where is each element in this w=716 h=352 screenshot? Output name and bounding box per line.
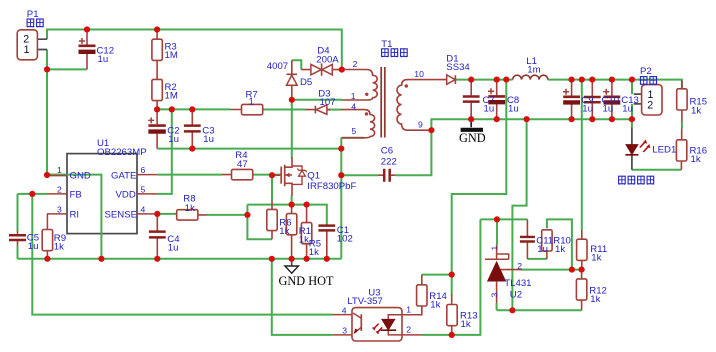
label R2 [165,82,178,101]
node U1 GND pin [44,172,50,178]
node source R5 [304,202,310,208]
wire LED riser top [631,119,633,127]
svg-text:TL431: TL431 [504,278,531,289]
wire R7 right to D3 [262,109,306,111]
wire VDD riser [157,109,172,193]
wire opto pin3 riser [272,259,333,335]
node rail R1 [289,256,295,262]
svg-text:1u: 1u [28,241,39,252]
svg-text:4: 4 [351,101,356,111]
svg-text:222: 222 [381,156,397,167]
node gnd TL431 riser [524,116,530,122]
node R13 bottom [449,332,455,338]
label R1 [299,226,311,245]
wire pin9 riser and output gnd rail [431,119,632,130]
svg-text:5: 5 [352,126,357,136]
label U3 LTV-357 [342,288,412,336]
wire source node down to R6 bottom [247,205,272,240]
resistor R8 [177,210,207,220]
node gnd C8 [494,116,500,122]
label C8 [507,95,519,115]
svg-text:1k: 1k [430,299,440,310]
label C12 [97,46,115,65]
svg-text:102: 102 [337,233,353,244]
svg-text:2: 2 [517,261,522,271]
wire R11 riser [581,80,583,230]
label T1 [381,39,407,57]
wire VDD row C2 C3 to R7 [157,108,231,110]
svg-text:1k: 1k [279,226,289,237]
label R8 [183,194,195,214]
wire FB row [18,193,48,195]
transistor Q1 [272,158,307,197]
wire opto pin2 to TL431 riser [422,219,481,335]
label R6 [279,218,291,238]
svg-text:C6: C6 [381,146,393,157]
node C6 tap [338,172,344,178]
LED LED1 [625,128,650,170]
resistor R15 [677,81,687,122]
label P1 [27,9,43,27]
wire P2 pin2 riser [631,104,633,119]
svg-text:Q1: Q1 [307,171,320,182]
svg-text:D5: D5 [300,77,312,88]
svg-text:2: 2 [57,184,62,194]
svg-text:6: 6 [141,165,146,175]
label R4 [235,150,248,170]
svg-text:1: 1 [406,305,411,315]
label R5 [309,239,321,258]
svg-text:1k: 1k [185,203,195,214]
capacitor C4 [149,214,166,259]
svg-text:200A: 200A [316,55,339,66]
wire R10 top segment [547,219,572,269]
node out+ R11 riser [579,77,585,83]
wire ground hot rail [18,258,342,260]
IC U1 box [47,154,157,259]
svg-text:GND: GND [70,170,91,181]
wire LED bottom to R16 [632,169,682,171]
svg-text:10: 10 [414,69,424,79]
label D5 [300,77,312,88]
svg-text:1k: 1k [591,253,601,264]
node gnd C7 [468,116,474,122]
svg-text:1u: 1u [203,134,214,145]
node out+ C7 [468,77,474,83]
svg-text:GND: GND [459,131,486,145]
node out+ C10 [589,77,595,83]
label R9 [54,233,66,253]
label R3 [165,42,178,61]
label R14 [429,291,447,310]
svg-text:1: 1 [249,97,254,108]
svg-text:1: 1 [24,44,30,56]
wire R14 top link [422,274,452,276]
capacitor C3 [184,109,201,148]
node out+ P2 [629,77,635,83]
diode D5 [287,60,298,100]
wire drain vertical [291,100,293,159]
svg-text:SENSE: SENSE [105,210,138,221]
wire TL431 ref row [521,269,582,271]
wire transformer pin5 lead [341,137,364,139]
node rail opto riser [269,256,275,262]
svg-text:2: 2 [647,99,653,111]
capacitor C9 [563,80,580,120]
svg-text:1k: 1k [309,247,319,258]
label C1 [337,225,353,244]
label R12 [589,286,607,306]
capacitor C11 [520,219,535,259]
node TL431 cathode [494,216,500,222]
resistor R2 [152,79,162,109]
node rail C4 [154,256,160,262]
node xfmr pin9 [428,127,434,133]
node gnd C13 [609,116,615,122]
label C11 [536,236,553,256]
node VDD R2 [154,106,160,112]
opto U3 [333,305,422,341]
wire TL431 pin1 lead top [496,219,498,245]
svg-text:2: 2 [353,59,358,69]
svg-text:P1: P1 [27,9,39,20]
wire Q1 source lower [291,196,293,205]
resistor R7 [231,104,263,114]
node SENSE C4 [154,211,160,217]
svg-text:1u: 1u [582,104,593,115]
node rail C1 [324,256,330,262]
svg-text:1u: 1u [622,104,633,115]
wire D5 jog to D4 [292,60,302,69]
svg-text:LTV-357: LTV-357 [347,296,383,307]
svg-text:1: 1 [351,91,356,101]
wire FB corner to C5 [17,194,19,231]
diode D1 [442,75,456,84]
label TL431 U2 [490,246,532,301]
wire P1 pin1 to C12 bottom [47,50,87,70]
label U1 [97,138,147,158]
node sense R8 [244,212,250,218]
connector P1 [17,30,47,60]
capacitor C6 [379,169,396,182]
label C6 [381,146,397,168]
wire left vertical P1 to U1 GND pin [46,69,48,175]
svg-text:1u: 1u [168,134,179,145]
svg-text:1u: 1u [98,54,109,65]
capacitor C10 [584,80,601,120]
wire gate row from U1 [157,174,222,176]
node rail R9 [44,256,50,262]
resistor R14 [417,275,427,315]
wire gate dot to R6 top [271,175,273,201]
wire FB riser to opto pin4 [32,194,333,315]
svg-text:9: 9 [418,120,423,130]
node xfmr pin2 [339,67,345,73]
label D4 [316,46,339,66]
node gnd P2 LED [629,116,635,122]
label C10 [602,95,620,115]
node out+ C8 [494,77,500,83]
wire output top rail after D1 [455,79,513,81]
shunt reference U2 TL431 [485,245,522,303]
wire TL431 cathode row [480,218,527,220]
wire R8 right lead [207,214,248,216]
svg-text:1u: 1u [168,243,179,254]
svg-text:U2: U2 [510,290,522,301]
label C13 [621,95,639,115]
wire pin1 row from D5 node [292,99,343,101]
label R13 [460,311,478,331]
label xfmr pin numbers [351,59,424,136]
node source Q1 [289,202,295,208]
svg-text:1k: 1k [555,244,565,255]
resistor R1 [286,205,296,259]
svg-text:1k: 1k [299,234,309,245]
node VDD C3 [189,106,195,112]
svg-text:4007: 4007 [267,61,288,72]
node anode riser [509,307,515,313]
capacitor C12 [79,30,96,70]
wire U1 GND stub [47,174,66,176]
resistor R4 [222,169,254,179]
label C7 [483,95,495,115]
node FB [29,191,35,197]
svg-text:1M: 1M [165,90,178,101]
svg-text:1: 1 [490,246,500,251]
svg-text:1k: 1k [461,319,471,330]
svg-text:LED1: LED1 [652,145,676,156]
node VDD riser [169,106,175,112]
svg-text:GND HOT: GND HOT [279,274,334,288]
wire input top rail [47,30,342,70]
label C4 [167,234,180,254]
svg-text:4: 4 [141,204,146,214]
svg-text:107: 107 [320,97,336,108]
svg-text:1k: 1k [54,242,64,253]
node out+ R14 riser [503,77,509,83]
svg-text:1m: 1m [527,64,540,75]
label L1 [526,56,540,75]
label D1 [446,54,470,74]
svg-text:OB2263MP: OB2263MP [97,147,147,158]
node rail R5 [304,256,310,262]
node input+ R3 [154,26,160,32]
svg-text:GATE: GATE [111,170,136,181]
svg-text:SS34: SS34 [446,62,470,73]
svg-text:5: 5 [141,184,146,194]
node P1 return [44,66,50,72]
label R11 [590,244,607,264]
svg-text:FB: FB [70,190,82,201]
svg-text:P2: P2 [640,66,652,77]
label P2 [640,66,656,85]
node rail U1 gnd [98,256,104,262]
svg-text:3: 3 [490,293,500,298]
ground hot symbol [279,259,334,288]
label C2 [167,126,179,145]
wire R4 to gate [253,174,281,176]
label power indicator [619,176,654,184]
node drain D5 [289,97,295,103]
resistor R13 [447,295,457,335]
svg-text:3: 3 [57,204,62,214]
svg-text:1u: 1u [508,104,519,115]
resistor R10 [542,230,552,259]
svg-text:IRF830PbF: IRF830PbF [307,181,356,192]
svg-text:4: 4 [342,306,347,316]
svg-text:1k: 1k [691,154,701,165]
connector P2 [634,85,662,115]
capacitor C2 [148,109,166,148]
wire pin5 riser down to ground rail [340,138,342,259]
svg-text:1k: 1k [590,294,600,305]
transformer T1 [342,67,442,138]
svg-text:1u: 1u [484,104,495,115]
wire D3 anode to transformer pin4 [327,109,342,111]
resistor R16 [676,129,686,170]
svg-text:1u: 1u [537,244,548,255]
node input+ C12 [84,26,90,32]
node gate R6 [269,172,275,178]
label C9 [581,95,593,115]
capacitor C7 [463,80,480,120]
diode D3 [306,105,331,114]
wire C6 right to pin9 [395,130,431,175]
label LED1 [652,145,676,156]
resistor R6 [267,201,277,239]
svg-text:VDD: VDD [116,190,136,201]
wire R12 bottom row [497,309,582,311]
capacitor C5 [9,231,26,246]
node C3 bottom [189,146,195,152]
wire source node row [247,205,326,225]
wire P2 pin1 riser [631,80,633,95]
label R7 [246,90,258,108]
node ref R10 [569,267,575,273]
svg-text:RI: RI [70,210,80,221]
node pin5 riser [338,146,344,152]
label 4007 [267,61,288,72]
resistor R3 [152,30,162,80]
wire R15 R16 link [681,121,683,129]
resistor R9 [42,229,52,258]
wire TL431 anode feed path [512,119,526,310]
svg-text:1u: 1u [603,104,614,115]
ground symbol GND [459,119,486,145]
node out+ C13 [609,77,615,83]
label R16 [690,146,708,166]
svg-text:1k: 1k [691,106,701,117]
capacitor C8 [488,80,505,120]
label Q1 [307,171,356,193]
node gnd C10 [589,116,595,122]
node ref R11 R12 [579,267,585,273]
resistor R5 [301,205,311,259]
label C5 [27,233,39,252]
capacitor C13 [603,80,620,120]
resistor R11 [577,230,587,270]
capacitor C1 [318,225,335,259]
resistor R12 [576,270,586,311]
wire C2 C3 bottom row to pin5 riser [157,148,341,150]
label R15 [690,97,708,117]
node gnd C9 [569,116,575,122]
wire output top rail after L1 [548,80,682,90]
wire C11 R10 bottom link [527,258,547,260]
wire TL431 anode lead bottom [496,303,498,310]
svg-text:1: 1 [57,165,62,175]
wire R14 feed path [452,80,507,296]
inductor L1 [513,75,548,79]
label C3 [202,126,214,145]
node R14 R13 [449,272,455,278]
svg-text:47: 47 [237,159,248,170]
svg-text:1M: 1M [165,50,178,61]
svg-text:2: 2 [406,325,411,335]
svg-text:3: 3 [342,326,347,336]
wire C6 left [341,174,378,176]
node out+ C9 [569,77,575,83]
wire SENSE to R8 [157,213,177,215]
label R10 [553,236,571,256]
wire C5 bottom to rail [17,246,19,259]
label D3 [318,89,335,109]
TVS D4 [301,63,342,75]
